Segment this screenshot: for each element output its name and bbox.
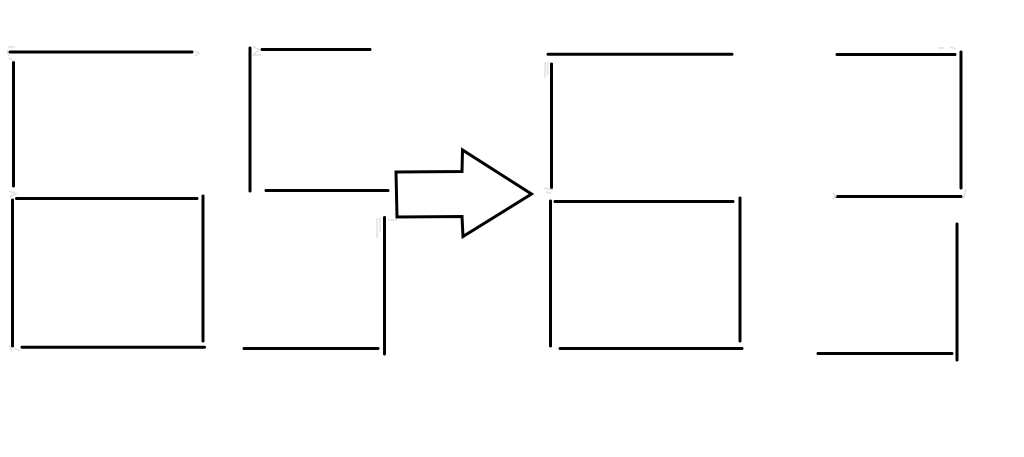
left rectangle top edge	[17, 197, 198, 200]
right open-corner top edge	[548, 53, 732, 56]
faint eraser ghost marks	[7, 46, 966, 352]
mid C-shape left edge	[249, 48, 252, 191]
far-right right edge upper	[960, 52, 963, 188]
right open-corner left edge	[550, 64, 553, 188]
mid L-shape bottom edge	[244, 347, 378, 350]
left rectangle right edge	[202, 196, 205, 341]
mid C-shape top edge	[262, 48, 370, 51]
right rectangle left edge	[549, 201, 552, 346]
left rectangle left edge	[11, 200, 14, 346]
mid C-shape bottom edge	[266, 189, 388, 192]
far-right middle edge	[836, 195, 961, 198]
right rectangle top edge	[555, 200, 733, 203]
left open-corner top edge	[10, 51, 192, 54]
block arrow pointing right	[396, 150, 532, 237]
right rectangle right edge	[739, 198, 742, 341]
far-right top edge	[837, 53, 955, 56]
left open-corner left edge	[12, 63, 15, 187]
far-right bottom edge	[818, 352, 952, 355]
left rectangle bottom edge	[22, 346, 205, 349]
right rectangle bottom edge	[560, 347, 742, 350]
far-right right edge lower	[956, 224, 959, 360]
mid L-shape right edge	[383, 218, 386, 355]
